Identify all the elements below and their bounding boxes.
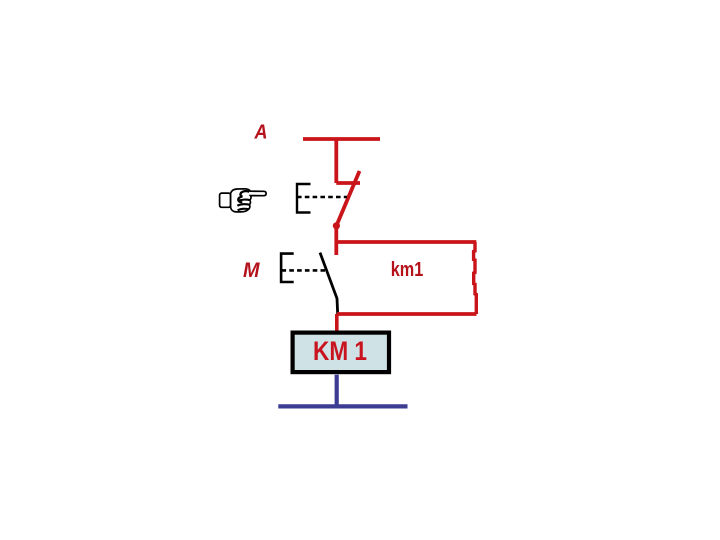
neutral line (blue): [278, 404, 407, 408]
hand pointer icon: [220, 189, 267, 212]
wire: branch to coil: [335, 314, 339, 331]
pushbutton M actuator dashed link: [282, 269, 326, 272]
svg-text:A: A: [254, 122, 268, 144]
wire: top supply line: [303, 137, 380, 141]
junction dot: [333, 222, 340, 229]
pushbutton A actuator dashed link: [297, 196, 347, 198]
wire: junction down to branch corner: [334, 226, 338, 255]
svg-text:M: M: [243, 259, 260, 282]
pushbutton M moving contact (black): [320, 253, 338, 315]
wire: vertical drop from supply: [334, 139, 338, 183]
pushbutton A actuator bracket: [297, 184, 311, 213]
wire: km1 holding branch top: [336, 240, 476, 244]
wire: coil to neutral (blue): [335, 375, 339, 407]
contactor coil KM1 box: [293, 333, 389, 373]
pushbutton A fixed contact stub: [336, 181, 360, 185]
wire: km1 holding branch right side: [474, 242, 477, 314]
pushbutton M actuator bracket: [281, 254, 294, 282]
svg-text:km1: km1: [391, 259, 424, 281]
pushbutton A moving contact (diagonal, red): [336, 171, 359, 226]
svg-text:KM 1: KM 1: [313, 336, 367, 366]
wire: km1 holding branch bottom: [337, 312, 477, 316]
